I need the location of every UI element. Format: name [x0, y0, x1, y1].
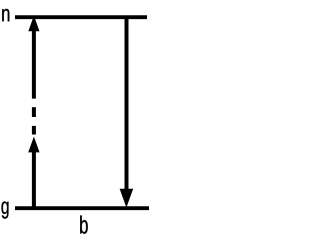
excitation arrow lower solid shaft: [32, 152, 36, 208]
excitation arrow top arrowhead: [28, 16, 39, 32]
label b: [80, 216, 88, 234]
level line g (ground energy level): [15, 206, 149, 210]
excitation arrow dash segment 2: [32, 107, 36, 117]
level line n (upper energy level): [15, 15, 147, 19]
excitation arrow dash segment 1: [32, 126, 36, 135]
excitation arrow upper solid shaft: [32, 31, 36, 99]
label n: [2, 9, 9, 21]
emission arrow down arrowhead: [120, 189, 134, 208]
excitation arrow mid arrowhead: [28, 137, 39, 153]
label g: [2, 202, 9, 219]
emission arrow shaft: [125, 18, 129, 191]
